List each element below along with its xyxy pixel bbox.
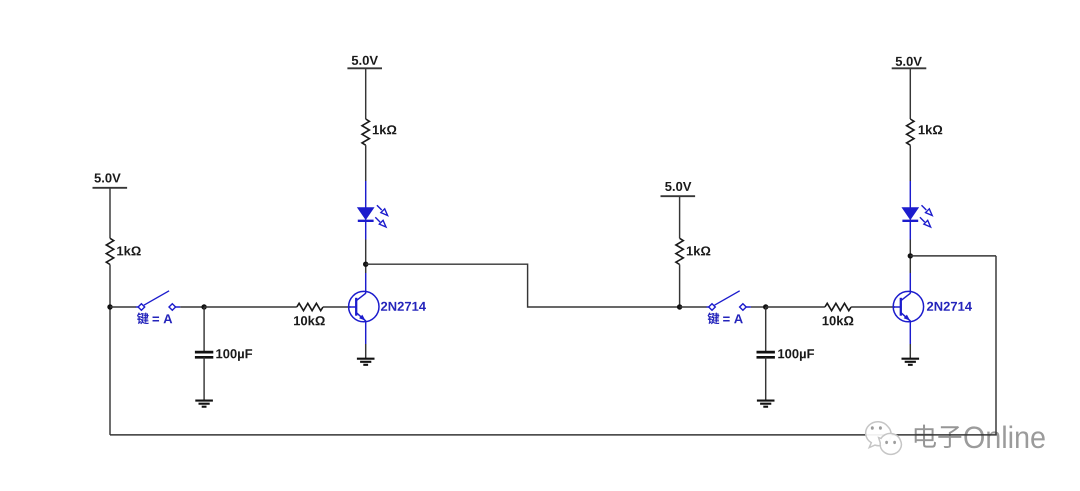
transistor Q1 2N2714: [348, 273, 426, 344]
wire V4 to R6: [909, 68, 911, 119]
watermark logo (WeChat bubbles): [866, 422, 902, 455]
switch S1 key=A (left): [136, 291, 180, 325]
ground below Q2 emitter: [902, 359, 920, 365]
junction node F (right collector): [908, 253, 913, 258]
resistor R4 1kΩ (right): [676, 238, 710, 264]
LED LED2 (right, blue): [902, 181, 932, 240]
wire C2 to ground: [765, 357, 767, 400]
wire S1 to node B: [180, 306, 204, 308]
resistor R1 1kΩ (vertical, left): [106, 238, 140, 264]
ground below Q1 emitter: [357, 359, 375, 365]
ground below C1: [195, 401, 213, 407]
capacitor C1 100µF: [195, 349, 252, 361]
junction node E: [763, 304, 768, 309]
junction node D: [677, 304, 682, 309]
wire R3 to LED1: [365, 145, 367, 181]
LED LED1 (left, blue): [358, 181, 388, 240]
wire V1 to R1: [109, 188, 111, 239]
wire Q1 emitter to ground: [365, 344, 367, 359]
resistor R3 1kΩ (left collector): [362, 119, 396, 145]
switch S2 key=A (right): [707, 291, 751, 325]
junction node C (left collector): [363, 262, 368, 267]
power V3 5.0V (right base branch): [661, 182, 696, 196]
wire V3 to R4: [679, 196, 681, 238]
wire node C to right base row: [366, 264, 680, 307]
wire node B down to C1: [203, 307, 205, 352]
wire Q2 emitter to ground: [909, 344, 911, 359]
transistor Q2 2N2714: [893, 273, 972, 344]
wire node D to switch S2: [680, 306, 707, 308]
power V2 5.0V (left LED branch): [347, 56, 382, 69]
wire node A to switch S1: [110, 306, 136, 308]
wire node E to R5: [766, 306, 825, 308]
wire R5 to Q2 base: [851, 306, 895, 308]
wire LED1 to node C / Q1 collector: [365, 240, 367, 274]
wire R4 to node D: [679, 265, 681, 308]
wire node B to R2: [204, 306, 297, 308]
power V4 5.0V (right LED branch): [892, 57, 927, 69]
wire node E down to C2: [765, 307, 767, 352]
wire S2 to node E: [751, 306, 766, 308]
wire V2 to R3: [365, 68, 367, 119]
resistor R5 10kΩ (right base): [823, 303, 854, 325]
wire R2 to Q1 base: [323, 306, 351, 308]
ground below C2: [757, 401, 775, 407]
resistor R2 10kΩ (left base): [294, 303, 325, 325]
wire bottom feedback rail (node F to node A): [110, 256, 996, 435]
resistor R6 1kΩ (right collector): [907, 119, 943, 145]
wire R1 to node A: [109, 265, 111, 308]
junction node A: [107, 304, 112, 309]
power V1 5.0V (left base branch): [93, 173, 128, 187]
junction node B: [201, 304, 206, 309]
wire C1 to ground: [203, 357, 205, 400]
capacitor C2 100µF: [757, 349, 815, 361]
wire node F to right edge: [910, 255, 996, 257]
watermark text 电子Online: [915, 425, 1046, 450]
wire LED2 to node F / Q2 collector: [909, 240, 911, 274]
wire node A down to bottom rail: [109, 307, 111, 435]
wire R6 to LED2: [909, 145, 911, 181]
